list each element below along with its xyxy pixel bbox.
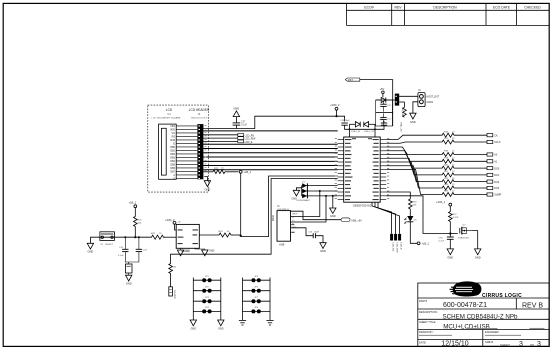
svg-text:DO0: DO0: [494, 167, 500, 170]
svg-text:600-00478-Z1: 600-00478-Z1: [443, 302, 487, 309]
svg-text:USB_+5V: USB_+5V: [351, 220, 362, 223]
ground under USB cap: [320, 243, 326, 249]
net tag DO2: [487, 180, 493, 183]
svg-text:DO3: DO3: [494, 187, 500, 190]
resistor R40: [441, 166, 487, 170]
svg-text:LCD 16X2 BRIGHT SQUARE: LCD 16X2 BRIGHT SQUARE: [152, 117, 181, 120]
resistor R41: [441, 173, 487, 177]
title block: [418, 283, 549, 346]
svg-text:LCD HEADER: LCD HEADER: [189, 108, 210, 112]
wire MCU pin to R42: [386, 162, 440, 182]
svg-text:LCD_R/W: LCD_R/W: [395, 243, 397, 254]
net tag USB_+5V (stadium): [341, 218, 350, 222]
ground under battery: [126, 275, 132, 281]
svg-text:LCD_E: LCD_E: [245, 141, 253, 144]
resistor R34 horizontal (reset out): [199, 234, 217, 236]
svg-text:DO2: DO2: [494, 181, 500, 184]
earth ground under block B right: [266, 321, 273, 325]
svg-text:0.1uF: 0.1uF: [118, 255, 124, 257]
svg-text:REV: REV: [395, 5, 403, 9]
MCU bottom pin wires to LCD control tags: [372, 202, 392, 234]
MCU U5 right pin stubs: [380, 140, 386, 200]
net flag RST: [345, 78, 360, 81]
svg-text:VBUS: VBUS: [292, 213, 298, 215]
bypass cap box upper (C30): [376, 100, 393, 113]
diode pair XTAL drive: [350, 123, 356, 125]
svg-text:SHEET: SHEET: [500, 343, 510, 347]
revision table: [347, 4, 550, 26]
wire MCU pin to R41: [386, 158, 440, 175]
capacitor C29: [381, 122, 387, 124]
svg-text:3: 3: [519, 341, 523, 348]
svg-text:OF: OF: [530, 343, 534, 347]
svg-text:XTAL1_IN: XTAL1_IN: [351, 130, 361, 133]
net tag DO0: [487, 167, 493, 170]
svg-text:GND: GND: [185, 249, 191, 252]
ground under J8: [410, 113, 416, 119]
svg-text:GND: GND: [410, 120, 416, 124]
resistor R31 vertical: [134, 217, 138, 227]
svg-text:C28 18pF: C28 18pF: [340, 120, 350, 122]
supervisor U6 body: [176, 224, 199, 248]
svg-text:XTAL1_OUT: XTAL1_OUT: [364, 130, 376, 133]
svg-text:SCLK: SCLK: [494, 141, 501, 144]
jumper block A rails: [193, 278, 221, 321]
svg-text:ENGINEER:: ENGINEER:: [485, 330, 500, 334]
svg-text:CHECKED: CHECKED: [524, 5, 541, 9]
svg-text:USB: USB: [279, 243, 285, 247]
svg-text:NO POP: NO POP: [173, 290, 175, 299]
wire: lower-left MCU wires down to reset area: [241, 176, 338, 237]
ground at ESD: [293, 190, 299, 196]
svg-text:GND: GND: [447, 255, 453, 259]
svg-text:15pF: 15pF: [314, 232, 320, 234]
svg-text:+3VD_2: +3VD_2: [330, 103, 340, 107]
svg-text:DRAWN BY:: DRAWN BY:: [419, 330, 434, 334]
diode D8 (host power): [376, 99, 382, 101]
reset rail wire: [90, 236, 150, 238]
resistor R39: [441, 159, 487, 163]
svg-text:RST: RST: [348, 79, 353, 82]
jumper JP8: [251, 309, 255, 313]
ESD array D7 rows to MCU: [302, 186, 338, 196]
junction dot node +3VD: [335, 115, 337, 117]
net tag LCD_DB (vertical) 1: [390, 234, 393, 241]
USB pin wires: [291, 191, 342, 236]
node +LB_1 (backlight): [239, 170, 242, 173]
wire J8 pin2 to ground: [413, 102, 418, 113]
jumper JP7: [251, 299, 255, 303]
jumper JP1: [202, 278, 206, 282]
LCD module pin names: [170, 125, 176, 181]
svg-text:GND: GND: [292, 198, 298, 201]
svg-text:C8051F320-GQ: C8051F320-GQ: [353, 203, 371, 207]
svg-text:SHEET TITLE:: SHEET TITLE:: [419, 320, 436, 324]
resistor R43: [441, 186, 487, 190]
wire MCU pin to R39: [386, 151, 440, 162]
svg-text:SIZE B: SIZE B: [485, 340, 493, 344]
svg-text:MCU+LCD+USB: MCU+LCD+USB: [443, 323, 489, 330]
svg-text:10K: 10K: [138, 222, 142, 224]
wire D- up to ESD row: [291, 191, 320, 217]
ground stub left under U6: [180, 248, 182, 250]
svg-text:LCD_E: LCD_E: [399, 243, 401, 251]
svg-text:SCHEM CDB5484U-Z NPb: SCHEM CDB5484U-Z NPb: [443, 313, 519, 320]
svg-text:4.32K: 4.32K: [453, 217, 459, 219]
svg-text:CK: CK: [494, 134, 498, 137]
jumper JP5: [251, 278, 255, 282]
wire xtal pins to MCU: [349, 129, 351, 137]
svg-text:0.1uF: 0.1uF: [241, 124, 248, 127]
svg-text:NTA4153N: NTA4153N: [458, 237, 469, 240]
series resistor array to host port tags: [386, 135, 440, 194]
svg-text:ECO#: ECO#: [364, 5, 373, 9]
wire: reset net riser into MCU: [240, 173, 242, 236]
LCD data bus wires to MCU: [203, 131, 337, 170]
wires header J7 to connector J8: [399, 95, 418, 97]
resistor R44: [441, 193, 487, 197]
resistor R47 vertical: [449, 212, 453, 222]
resistor R37: [441, 140, 487, 144]
svg-text:ECO DATE: ECO DATE: [493, 5, 511, 9]
junction dot MCU gnd on ESD row3: [332, 195, 334, 197]
resistor R33 on backlight pin: [203, 171, 213, 173]
svg-text:PART#: PART#: [419, 299, 428, 303]
svg-text:USB: USB: [271, 215, 275, 221]
svg-text:GND: GND: [233, 107, 239, 111]
wire RST to header: [360, 80, 393, 126]
jumper JP2: [202, 289, 206, 293]
Cirrus Logic logo: [450, 281, 523, 298]
wire ESD common to ground: [296, 188, 301, 191]
svg-text:USB_+5V: USB_+5V: [400, 122, 402, 132]
wire MCU pin to R44: [386, 170, 440, 195]
net tag LCD_R/W: [238, 137, 244, 140]
LCD module U4: [159, 124, 177, 179]
ground under block A left: [190, 320, 196, 326]
svg-text:GND: GND: [330, 214, 336, 218]
capacitor C27: [233, 122, 241, 124]
wire Q2 to ground: [472, 231, 478, 249]
svg-text:LCD: LCD: [166, 108, 173, 112]
svg-text:+LB_1: +LB_1: [129, 200, 137, 204]
jumper JP3: [202, 299, 206, 303]
jumper JP6: [251, 289, 255, 293]
svg-text:D-: D-: [292, 217, 294, 219]
resistor R42: [441, 180, 487, 184]
earth ground under block B left: [239, 321, 246, 325]
jumper stake J9: [169, 287, 173, 296]
ground under Q2: [475, 249, 481, 255]
wire MCU pin to backlight switch rail: [386, 196, 458, 234]
svg-text:GND: GND: [218, 328, 224, 331]
connector J3 pin number texture: [205, 125, 207, 171]
wire D+ up to ESD row: [291, 196, 327, 222]
capacitor C33: [138, 237, 140, 249]
svg-text:0.1uF: 0.1uF: [439, 240, 445, 242]
ground under block A right: [218, 320, 224, 326]
svg-text:CIRRUS LOGIC: CIRRUS LOGIC: [482, 293, 522, 299]
resistor R35 vertical (no pop): [169, 264, 173, 274]
ground left of switch: [89, 237, 91, 243]
wire GND pin to series cap: [291, 228, 314, 236]
ground stub right under U6: [195, 248, 205, 250]
battery holder BT1: [125, 252, 139, 264]
junction dot backlight out: [240, 235, 242, 237]
MCU pin number texture: [335, 138, 390, 199]
wire VBUS to tag: [291, 211, 342, 220]
svg-text:DESCRIPTION: DESCRIPTION: [433, 5, 457, 9]
svg-text:DESCRIPTION:: DESCRIPTION:: [419, 310, 438, 314]
svg-text:RESET: RESET: [106, 244, 114, 246]
svg-text:+5V: +5V: [380, 87, 385, 91]
jumper JP4: [202, 309, 206, 313]
resistor R36: [441, 133, 487, 137]
svg-text:GND: GND: [191, 328, 197, 331]
svg-text:DATE:: DATE:: [419, 340, 427, 344]
MCU U5 body: [344, 137, 381, 202]
ground under C36: [447, 249, 453, 255]
ESD diode D7 triangles: [302, 183, 307, 188]
svg-text:REV B: REV B: [522, 302, 543, 309]
net tag A0: [487, 153, 493, 156]
pushbutton S1 RESET: [100, 232, 115, 241]
svg-text:GND: GND: [320, 249, 326, 253]
header J7 body (host power select): [395, 94, 399, 106]
ground below header J3: [204, 177, 207, 181]
net tag SUMP: [487, 193, 493, 196]
wire MCU pin to R40: [386, 155, 440, 169]
LCD module pin stub wires: [176, 126, 197, 178]
MCU U5 internal pin name texture: [345, 138, 379, 200]
wire: header pin1 bus up to +3VD rail: [203, 116, 336, 128]
net tag LCD_E: [238, 140, 244, 143]
wire MCU pin to R36: [386, 135, 440, 139]
svg-text:DO1: DO1: [494, 174, 500, 177]
svg-text:+3VD_3: +3VD_3: [165, 218, 175, 222]
jumper block B rails: [243, 278, 271, 321]
net tag LCD_RS: [238, 133, 244, 136]
connector J8 (host out): [418, 93, 425, 107]
net tag A1: [487, 160, 493, 163]
svg-text:GND1: GND1: [427, 101, 434, 104]
resistor R46 (LED) vertical: [409, 199, 413, 209]
svg-text:3: 3: [537, 341, 541, 348]
junction dot backlight rail: [449, 232, 451, 234]
svg-text:GND: GND: [475, 255, 481, 259]
net tag LCD_DB (vertical) 3: [398, 234, 401, 241]
bypass cap box lower (C31): [376, 113, 393, 126]
svg-text:+3VA_1: +3VA_1: [436, 200, 446, 204]
wire MCU pin to R38: [386, 147, 440, 155]
LED D6: [409, 209, 411, 216]
svg-text:SP0503BAHT: SP0503BAHT: [296, 199, 310, 202]
MCU U5 left pin stubs: [338, 140, 344, 200]
svg-text:HOST_EXT: HOST_EXT: [427, 95, 440, 98]
svg-text:GND: GND: [205, 187, 211, 191]
net tag CK: [487, 134, 493, 137]
wires header to net tags: [203, 135, 237, 142]
capacitor C28: [341, 122, 347, 124]
svg-text:12/15/10: 12/15/10: [441, 340, 468, 347]
wire MCU to LED resistor: [386, 192, 410, 199]
wire LED to +LB_1 node: [410, 222, 417, 244]
svg-text:+LB_1: +LB_1: [421, 242, 429, 246]
net tag SCLK: [487, 140, 493, 143]
svg-text:TSW-116-07-G-S: TSW-116-07-G-S: [191, 118, 208, 120]
capacitor C32: [124, 237, 126, 249]
resistor R38: [441, 153, 487, 157]
resistor R45 pullup (vertical): [404, 102, 406, 107]
ground below MCU: [330, 208, 336, 213]
svg-text:GND: GND: [209, 249, 215, 252]
net tag DO3: [487, 186, 493, 189]
LCD dashed group box: [148, 105, 209, 192]
svg-text:GND: GND: [88, 250, 94, 254]
svg-text:GND: GND: [126, 282, 132, 286]
net tag LCD_DB (vertical) 2: [394, 234, 397, 241]
svg-text:LCD_RS: LCD_RS: [391, 243, 393, 252]
capacitor C34 series: [312, 233, 314, 238]
junction dot reset rail: [134, 236, 136, 238]
wire MCU pin to R37: [386, 142, 440, 143]
header connector J3 body: [197, 124, 203, 179]
crystal loop bottom rail: [345, 128, 384, 130]
resistor R32 horizontal: [150, 235, 165, 239]
svg-text:+LB_1: +LB_1: [243, 170, 251, 174]
wire: +3VD rail into xtal loop: [337, 116, 345, 121]
transistor Q2 backlight switch: [459, 228, 461, 234]
svg-text:SUMP: SUMP: [494, 194, 501, 197]
capacitor C36: [447, 236, 454, 238]
net tag DO1: [487, 173, 493, 176]
wire MCU pin to R43: [386, 166, 440, 188]
